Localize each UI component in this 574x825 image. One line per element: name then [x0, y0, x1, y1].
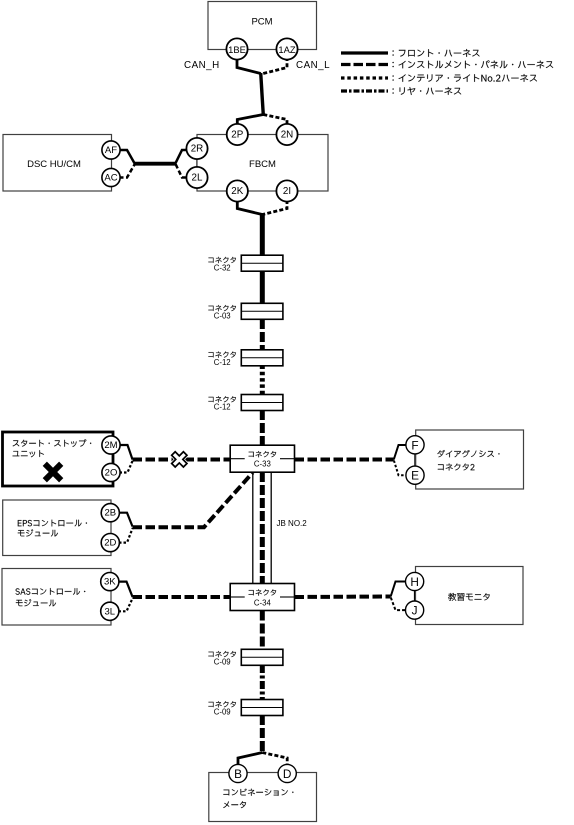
svg-text:D: D — [283, 767, 292, 781]
svg-text:3L: 3L — [105, 606, 116, 617]
svg-text:CAN_H: CAN_H — [184, 60, 220, 71]
svg-text:2N: 2N — [281, 130, 294, 141]
svg-text:2I: 2I — [283, 186, 291, 197]
svg-text:C-33: C-33 — [254, 459, 271, 468]
svg-text:DSC HU/CM: DSC HU/CM — [27, 159, 81, 170]
svg-text:PCM: PCM — [251, 16, 272, 27]
svg-text:JB NO.2: JB NO.2 — [277, 519, 308, 528]
svg-text:C-34: C-34 — [254, 599, 272, 608]
svg-text:CAN_L: CAN_L — [296, 60, 330, 71]
svg-text:J: J — [412, 604, 418, 618]
svg-text:F: F — [411, 438, 418, 452]
svg-text:2D: 2D — [104, 538, 116, 549]
svg-text:C-03: C-03 — [214, 312, 231, 321]
svg-text:AF: AF — [105, 145, 117, 156]
svg-text:2B: 2B — [104, 508, 116, 519]
svg-text:B: B — [234, 767, 242, 781]
svg-text:2M: 2M — [104, 440, 117, 451]
svg-text:AC: AC — [104, 173, 117, 184]
svg-text:3K: 3K — [104, 577, 116, 588]
svg-text:C-09: C-09 — [214, 658, 231, 667]
svg-text:H: H — [410, 575, 419, 589]
svg-text:2L: 2L — [192, 173, 203, 184]
svg-text:2O: 2O — [105, 468, 118, 479]
svg-text:2R: 2R — [191, 144, 204, 155]
svg-text:2K: 2K — [231, 186, 243, 197]
svg-text:C-12: C-12 — [214, 358, 231, 367]
svg-text:C-32: C-32 — [214, 263, 231, 272]
svg-text:2P: 2P — [231, 130, 243, 141]
svg-text:1AZ: 1AZ — [278, 44, 295, 55]
svg-text:E: E — [411, 469, 419, 483]
svg-text:C-12: C-12 — [214, 403, 231, 412]
svg-text:FBCM: FBCM — [249, 159, 276, 170]
svg-text:1BE: 1BE — [228, 44, 246, 55]
svg-text:C-09: C-09 — [214, 708, 231, 717]
